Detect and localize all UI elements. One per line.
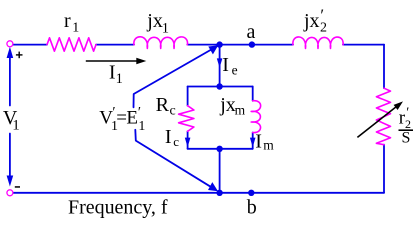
- svg-text:c: c: [173, 134, 179, 149]
- svg-text:1: 1: [12, 117, 20, 133]
- svg-text:jx: jx: [303, 10, 320, 32]
- svg-text:S: S: [402, 130, 411, 147]
- svg-text:jx: jx: [219, 94, 236, 116]
- svg-text:=: =: [116, 107, 127, 128]
- svg-text:b: b: [247, 197, 257, 219]
- svg-text:e: e: [232, 63, 238, 78]
- svg-text:Frequency, f: Frequency, f: [68, 196, 168, 218]
- svg-text:E: E: [126, 107, 138, 128]
- svg-text:I: I: [255, 131, 262, 153]
- svg-text:1: 1: [138, 119, 145, 134]
- svg-text:1: 1: [162, 21, 169, 37]
- svg-text:1: 1: [72, 21, 79, 36]
- svg-text:I: I: [109, 62, 116, 84]
- svg-text:I: I: [222, 54, 229, 76]
- svg-text:2: 2: [320, 21, 327, 36]
- svg-text:R: R: [156, 94, 170, 116]
- svg-text:a: a: [247, 21, 256, 43]
- svg-text:1: 1: [116, 71, 123, 87]
- svg-text:m: m: [263, 138, 274, 153]
- svg-text:c: c: [170, 103, 176, 118]
- svg-text:I: I: [165, 126, 172, 148]
- svg-text:m: m: [235, 103, 246, 118]
- svg-text:jx: jx: [146, 10, 163, 32]
- svg-text:r: r: [64, 10, 71, 32]
